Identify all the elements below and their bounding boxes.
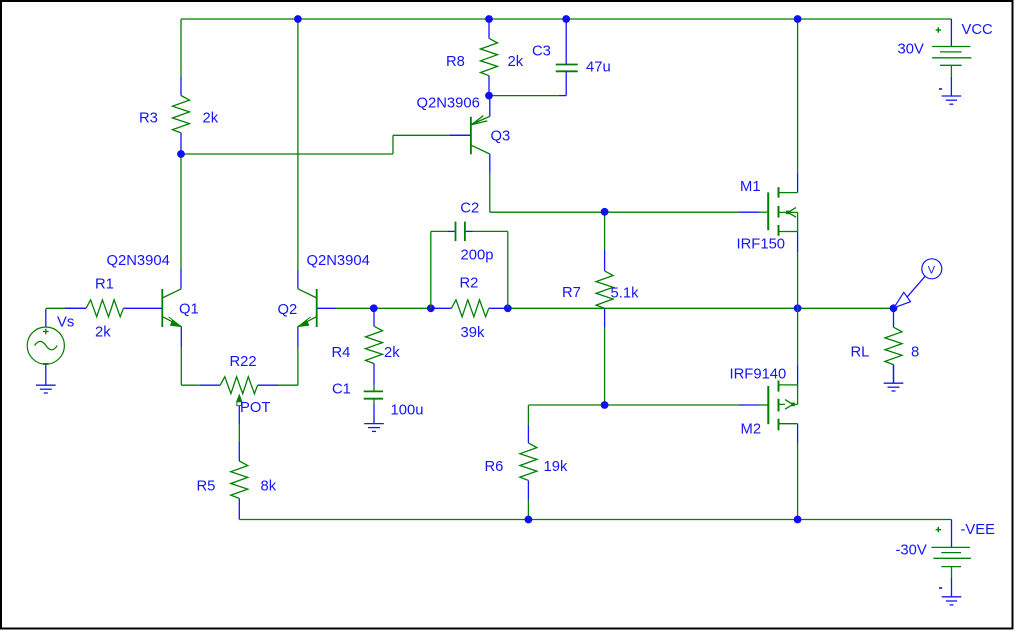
wire top VCC rail — [181, 18, 951, 20]
svg-text:R7: R7 — [562, 285, 581, 301]
voltage probe V — [922, 259, 942, 279]
svg-text:47u: 47u — [586, 60, 611, 76]
resistor R2 — [451, 300, 488, 317]
ground below C1 — [373, 404, 375, 424]
wire Vs top pin — [45, 309, 47, 327]
svg-text:RL: RL — [851, 345, 870, 361]
svg-text:2k: 2k — [384, 345, 400, 361]
svg-text:R5: R5 — [197, 478, 216, 494]
junction R4 node — [370, 304, 378, 312]
capacitor C1 — [364, 390, 383, 392]
svg-text:5.1k: 5.1k — [611, 286, 640, 302]
wire RL bottom pin — [893, 365, 895, 384]
svg-text:V: V — [928, 264, 936, 276]
minus of VCC — [939, 88, 942, 90]
svg-text:200p: 200p — [461, 248, 494, 264]
junction R6 bottom node — [525, 516, 533, 524]
resistor R4 — [366, 326, 383, 363]
svg-text:M1: M1 — [740, 179, 761, 195]
svg-text:C2: C2 — [460, 201, 479, 217]
battery VCC 30V — [932, 46, 970, 48]
svg-text:VCC: VCC — [962, 22, 994, 38]
junction output node at RL — [890, 304, 898, 312]
ground below RL — [893, 365, 895, 384]
svg-text:R6: R6 — [485, 459, 504, 475]
junction gate rail node — [601, 401, 609, 409]
svg-text:C3: C3 — [532, 44, 551, 60]
transistor Q2 Q2N3904 — [316, 289, 318, 327]
wire -VEE battery pin — [951, 520, 953, 548]
wire R5 bottom pin — [238, 498, 240, 519]
junction node A — [177, 150, 185, 158]
wire Q3 emitter pin — [489, 96, 491, 117]
plus of -VEE — [936, 529, 941, 531]
minus of -VEE — [939, 587, 942, 589]
mosfet M2 IRF9140 — [767, 386, 769, 424]
ground below VCC battery — [950, 77, 952, 96]
svg-text:2k: 2k — [508, 54, 524, 70]
wire C2 left lead — [431, 230, 448, 232]
wire R7 bottom to M2 gate rail — [604, 308, 606, 327]
potentiometer R22 — [220, 377, 257, 394]
wire R6 top pin — [527, 405, 529, 425]
resistor R5 — [231, 461, 248, 498]
resistor R1 — [86, 300, 123, 317]
wire Q3 collector down — [489, 154, 491, 174]
svg-text:R4: R4 — [332, 345, 351, 361]
junction Q2 collector rail — [294, 15, 302, 23]
wire Q1 collector — [180, 154, 182, 269]
wire mid rail to MOSFET sources — [605, 307, 798, 309]
plus of VCC — [936, 29, 941, 31]
svg-text:-30V: -30V — [896, 543, 927, 559]
wire R3 top to rail — [180, 19, 182, 77]
junction C3 top — [562, 15, 570, 23]
ground below Vs — [45, 365, 47, 386]
resistor RL — [885, 327, 902, 364]
junction Q3 collector node — [601, 208, 609, 216]
wire C2 right leg — [507, 231, 509, 308]
battery -VEE -30V — [931, 546, 970, 548]
svg-text:Q2: Q2 — [278, 302, 298, 318]
wire to Q3 base — [393, 134, 450, 136]
wire Q2 emitter to R22 — [297, 326, 299, 347]
wire M1 drain to top rail — [797, 19, 799, 173]
junction M2 drain node — [794, 516, 802, 524]
wire node B horizontal — [489, 95, 559, 97]
wire gate rail R6 to node — [528, 404, 604, 406]
svg-text:POT: POT — [240, 400, 270, 416]
wire VCC battery pin — [950, 19, 952, 47]
wire R7 top pin — [604, 212, 606, 249]
wire C2 right lead — [465, 230, 473, 232]
junction R8 top — [485, 15, 493, 23]
voltage source Vs — [27, 327, 64, 364]
svg-text:R2: R2 — [460, 276, 479, 292]
svg-text:Q1: Q1 — [179, 301, 199, 317]
junction output node at MOSFETs — [794, 304, 802, 312]
svg-text:30V: 30V — [898, 42, 924, 58]
svg-text:IRF150: IRF150 — [737, 237, 786, 253]
wire RL top pin — [893, 308, 895, 327]
resistor R6 — [520, 443, 537, 480]
mosfet M1 IRF150 — [767, 192, 769, 230]
svg-text:R8: R8 — [446, 54, 465, 70]
wire R2 right pin — [489, 307, 508, 309]
wire Q1 emitter to R22 — [180, 326, 182, 347]
wire R6 bottom pin — [527, 480, 529, 499]
junction C2 left node — [427, 304, 435, 312]
transistor Q1 Q2N3904 — [161, 289, 163, 327]
wire C2 left leg — [430, 231, 432, 308]
wire R4 to C1 — [373, 364, 375, 386]
svg-text:R1: R1 — [95, 277, 114, 293]
wire node A horizontal — [181, 153, 393, 155]
capacitor C3 — [556, 64, 578, 66]
svg-text:19k: 19k — [544, 459, 568, 475]
svg-text:-VEE: -VEE — [961, 522, 996, 538]
capacitor C2 — [455, 222, 457, 242]
svg-text:R3: R3 — [139, 111, 158, 127]
wire M2 source up — [797, 308, 799, 365]
junction node B — [485, 92, 493, 100]
wire Q2 collector to top rail — [297, 19, 299, 270]
wire Q2 base — [317, 307, 336, 309]
wire M1 source down — [797, 232, 799, 253]
resistor R8 — [481, 38, 498, 75]
svg-text:39k: 39k — [461, 325, 485, 341]
svg-text:8k: 8k — [261, 478, 277, 494]
wire gate rail to M2 gate — [605, 404, 739, 406]
svg-text:2k: 2k — [95, 325, 111, 341]
wire R2 left pin — [431, 307, 452, 309]
resistor R3 — [173, 96, 190, 133]
wire output to RL — [798, 307, 894, 309]
wire Q3 collector to R7 node — [490, 211, 605, 213]
resistor R7 — [596, 271, 613, 308]
wire mid rail R4-C2 — [374, 307, 431, 309]
svg-text:8: 8 — [911, 345, 919, 361]
junction M1 drain rail — [794, 15, 802, 23]
wire POT wiper down to R5 — [238, 406, 240, 425]
wire mid rail to R7 — [508, 307, 605, 309]
svg-text:R22: R22 — [230, 354, 257, 370]
wire jog up at x=393 — [392, 135, 394, 154]
svg-text:Q3: Q3 — [491, 129, 511, 145]
svg-text:IRF9140: IRF9140 — [730, 367, 787, 383]
svg-text:Q2N3906: Q2N3906 — [417, 96, 480, 112]
wire to M1 gate — [605, 211, 739, 213]
wire R1 to Q1 base — [123, 307, 161, 309]
transistor Q3 Q2N3906 — [470, 117, 472, 155]
svg-text:2k: 2k — [203, 111, 219, 127]
wire R4 top pin — [373, 308, 375, 326]
wire C1 bottom — [373, 399, 375, 404]
svg-text:Q2N3904: Q2N3904 — [107, 253, 170, 269]
svg-text:Vs: Vs — [57, 315, 74, 331]
svg-text:M2: M2 — [741, 422, 762, 438]
wire M2 drain down — [797, 424, 799, 444]
junction C2 right node — [504, 304, 512, 312]
ground below -VEE battery — [951, 578, 953, 597]
svg-text:C1: C1 — [332, 382, 351, 398]
wire bottom -VEE rail — [239, 519, 951, 521]
svg-text:100u: 100u — [391, 403, 424, 419]
svg-text:Q2N3904: Q2N3904 — [307, 253, 370, 269]
